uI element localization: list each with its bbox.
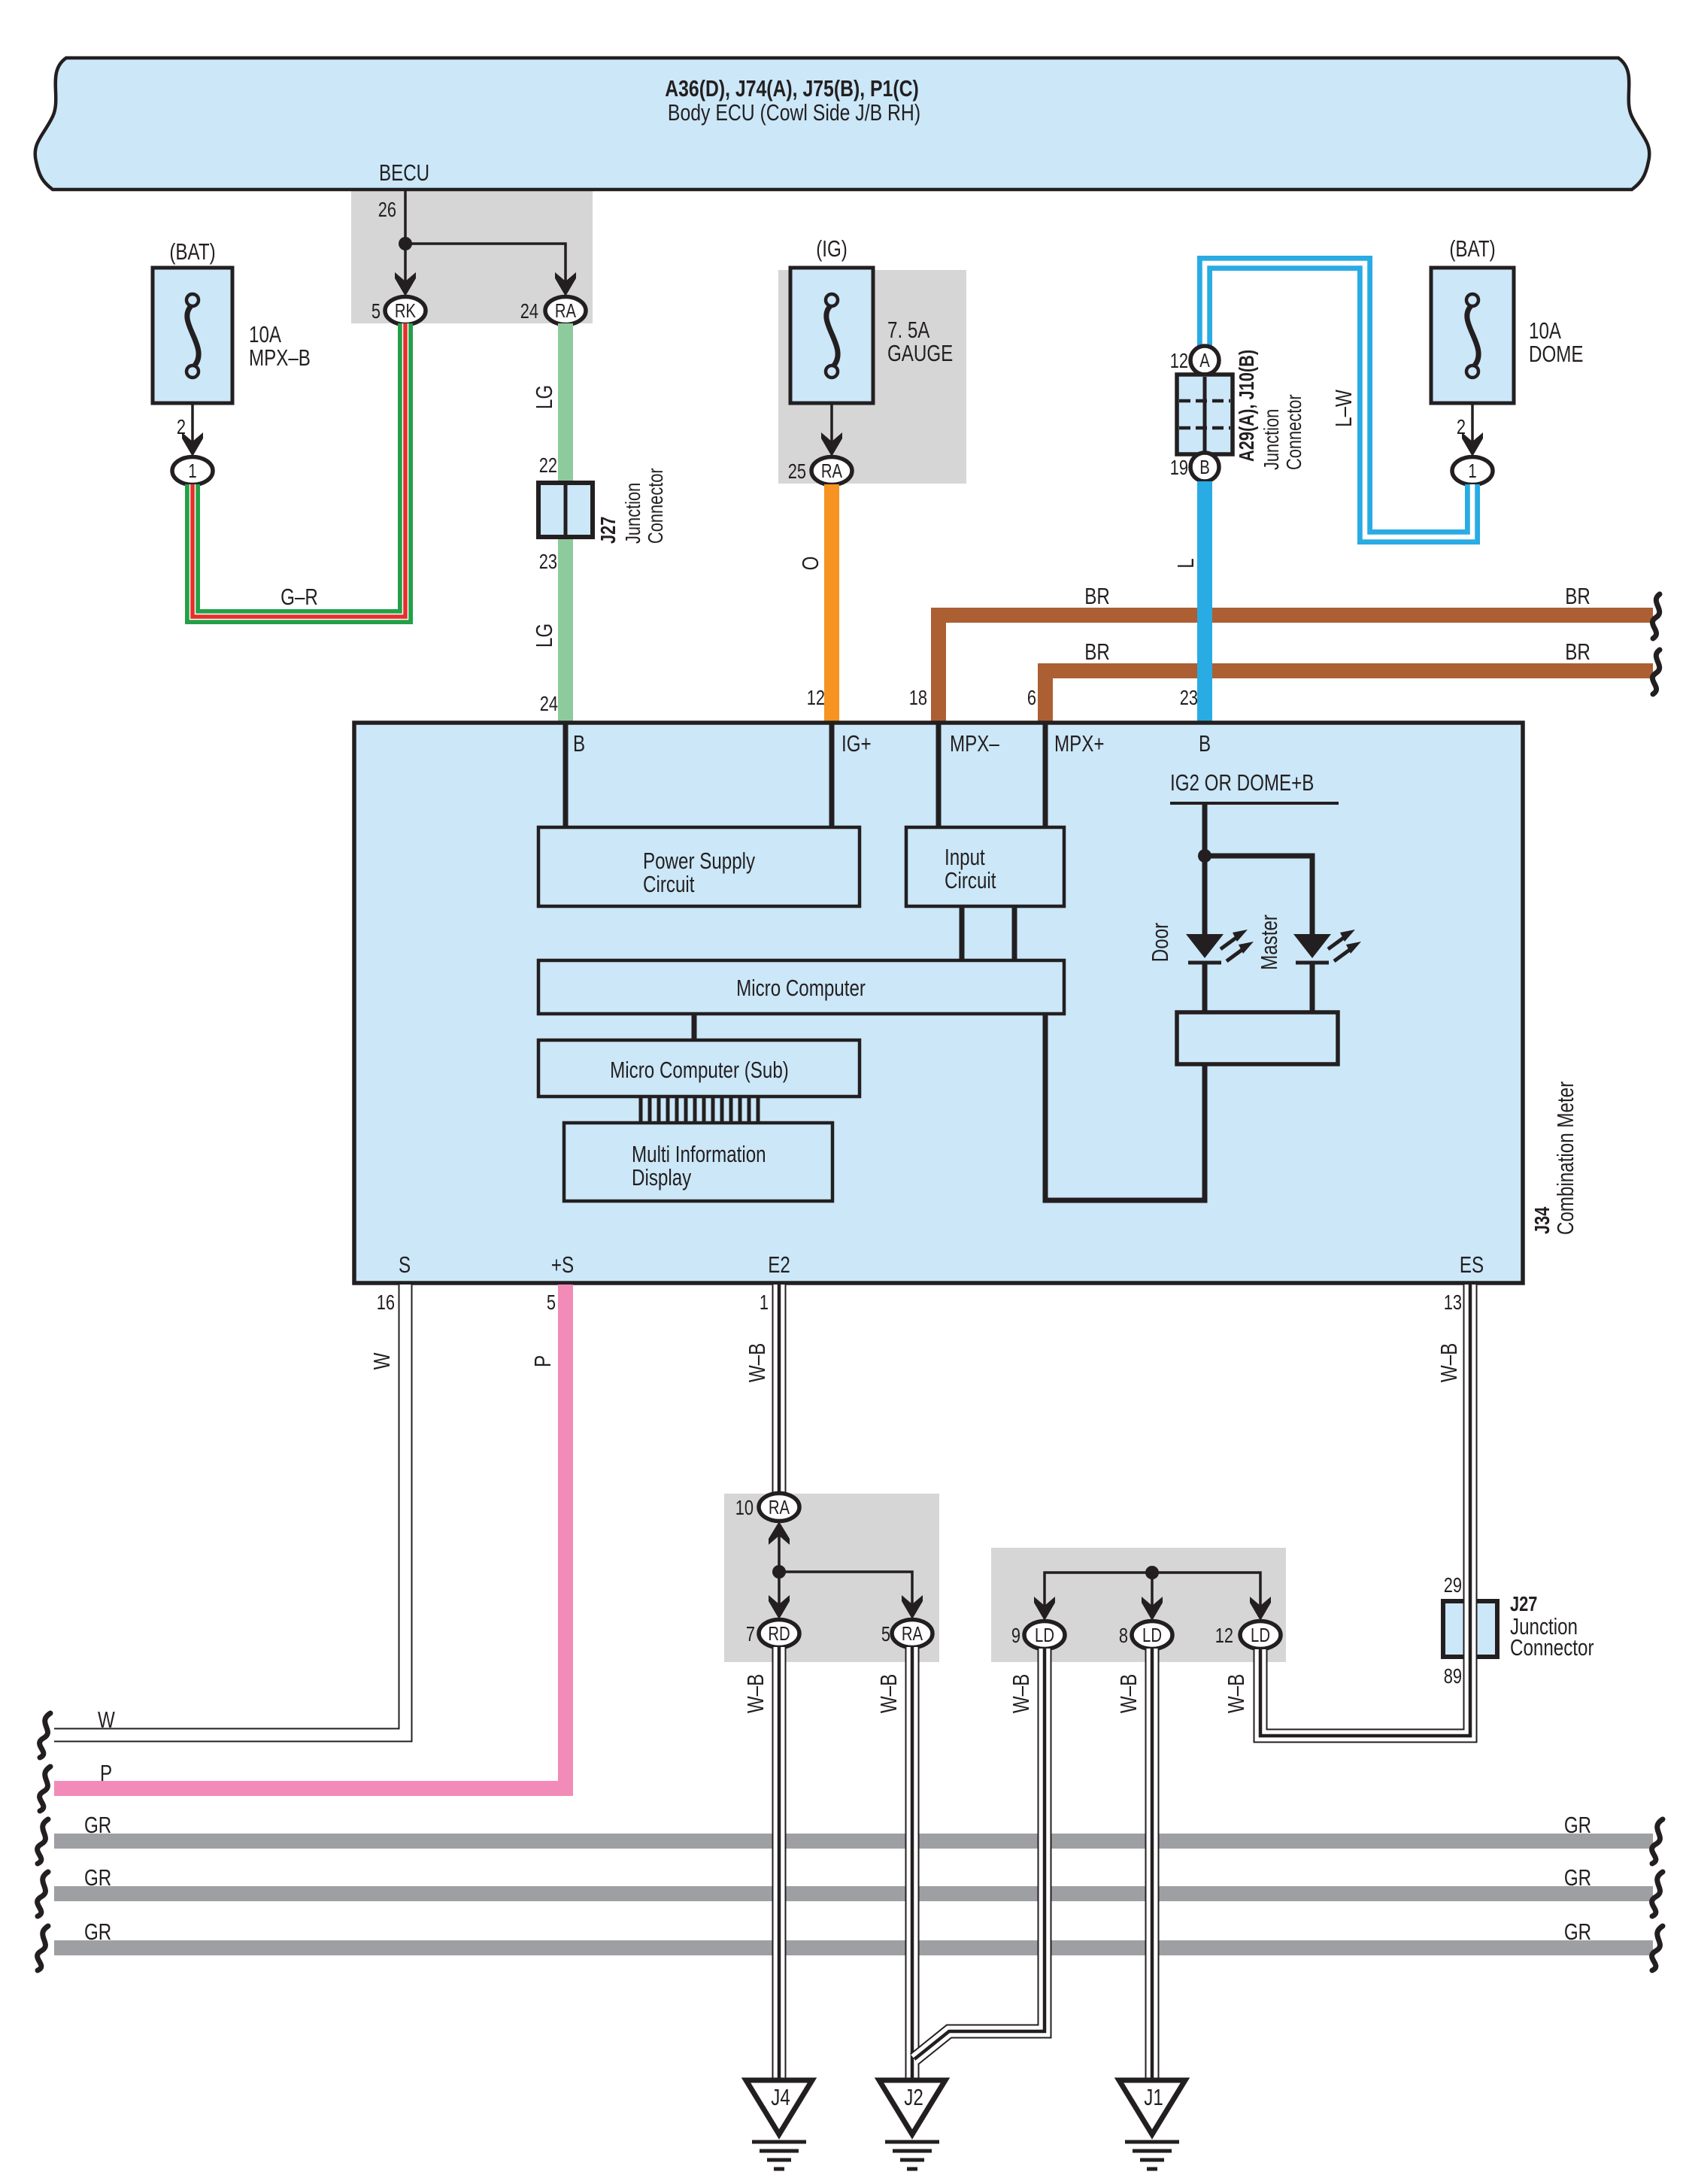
wire W-B from meter pin 13 ES down (1463, 1285, 1478, 1599)
svg-text:Micro Computer: Micro Computer (736, 975, 866, 1001)
svg-text:W: W (368, 1352, 395, 1370)
svg-text:W–B: W–B (1436, 1343, 1462, 1382)
break symbol GR2 right (1652, 1872, 1663, 1916)
LED Door (1186, 934, 1224, 958)
svg-text:Circuit: Circuit (643, 871, 695, 897)
LD group distribution line (1045, 1573, 1260, 1608)
gray background rect behind 9 LD / 8 LD / 12 LD connector group (991, 1548, 1286, 1662)
wire: GAUGE fuse pin 25 down (830, 403, 833, 444)
svg-text:7: 7 (746, 1622, 755, 1646)
pin stub MPX+ to input circuit (1043, 723, 1048, 827)
svg-text:Master: Master (1256, 915, 1282, 970)
banner: Body ECU (Cowl Side J/B RH) connector strip (35, 58, 1650, 190)
svg-text:9: 9 (1011, 1624, 1020, 1647)
wire: junction branch to RA 24 (405, 244, 566, 284)
break symbol BR right 1 (1652, 594, 1660, 639)
svg-text:RA: RA (555, 300, 577, 322)
ground J2 (879, 2080, 945, 2134)
svg-text:24: 24 (520, 299, 538, 323)
svg-text:GR: GR (1564, 1812, 1591, 1838)
gray background rect behind GAUGE fuse (778, 270, 966, 484)
connector circle 1 (DOME) (1452, 457, 1493, 485)
arrow into circle 1 (MPX-B) (182, 432, 203, 457)
svg-text:Door: Door (1147, 923, 1173, 962)
svg-text:B: B (1199, 457, 1210, 478)
svg-text:BR: BR (1565, 583, 1591, 609)
junction dot (E2 ground split) (772, 1565, 786, 1579)
svg-text:12: 12 (807, 686, 825, 709)
junction connector J27 (ES wire) (1443, 1601, 1497, 1657)
svg-text:GR: GR (1564, 1919, 1591, 1945)
connector oval RA pin 25 (811, 457, 852, 485)
wire GR bus 1 (54, 1834, 1653, 1849)
fuse 7.5A GAUGE box (790, 268, 873, 403)
svg-text:W–B: W–B (1115, 1674, 1142, 1713)
svg-text:B: B (573, 730, 585, 757)
svg-text:Power Supply: Power Supply (643, 848, 755, 874)
svg-text:J4: J4 (771, 2084, 790, 2110)
wire GR bus 3 (54, 1940, 1653, 1955)
wire O (orange) from RA 25 to meter pin 12 IG+ (824, 484, 839, 723)
svg-text:6: 6 (1027, 686, 1036, 709)
svg-text:23: 23 (539, 550, 557, 573)
wire LG from RA 24 down to meter pin 24 B (558, 323, 573, 723)
input circuit box (906, 827, 1064, 906)
svg-text:G–R: G–R (280, 584, 318, 610)
connector oval RA pin 5 (892, 1620, 932, 1648)
svg-text:BECU: BECU (379, 159, 429, 186)
micro computer (sub) box (538, 1040, 860, 1097)
svg-text:LG: LG (531, 623, 557, 648)
wire BR (MPX-) from meter pin 18 up and right to break (939, 615, 1653, 723)
wire BR (MPX+) from meter pin 6 up and right to break (1045, 671, 1653, 723)
arrow into RD 7 (769, 1595, 790, 1619)
junction dot (399, 237, 412, 250)
wire: junction down to RK 5 (404, 244, 407, 284)
svg-text:Display: Display (632, 1164, 691, 1191)
svg-text:1: 1 (1468, 460, 1476, 482)
svg-text:LG: LG (531, 385, 557, 409)
LED Master (1293, 934, 1331, 958)
wire L-W from circle 1 (DOME) to junction connector A (1205, 263, 1472, 537)
svg-text:RA: RA (902, 1623, 923, 1645)
svg-text:GR: GR (84, 1919, 111, 1945)
svg-text:10A: 10A (249, 321, 281, 347)
svg-text:5: 5 (881, 1622, 890, 1646)
svg-text:Circuit: Circuit (945, 867, 996, 893)
svg-text:7. 5A: 7. 5A (887, 317, 930, 343)
arrow into LD 8 (1142, 1597, 1163, 1621)
connector oval RD pin 7 (759, 1620, 799, 1648)
wire W-B from RD 7 to ground J4 (772, 1647, 787, 2079)
svg-text:J27: J27 (1510, 1592, 1537, 1615)
pin stub B to power supply circuit (563, 723, 569, 827)
micro computer to sub link (692, 1014, 697, 1040)
svg-text:ES: ES (1460, 1251, 1484, 1278)
svg-text:12: 12 (1215, 1624, 1233, 1647)
arrow up into RA 10 (769, 1521, 790, 1545)
fuse element MPX-B (186, 294, 199, 306)
break symbol W left (40, 1713, 50, 1758)
svg-text:W–B: W–B (875, 1674, 902, 1713)
svg-text:GR: GR (1564, 1864, 1591, 1891)
connector oval LD pin 12 (1240, 1621, 1281, 1649)
ground J4 (746, 2080, 812, 2134)
svg-text:LD: LD (1142, 1624, 1162, 1646)
svg-text:W–B: W–B (742, 1674, 769, 1713)
svg-text:LD: LD (1251, 1624, 1270, 1646)
wire W-B from meter pin 1 E2 down to 10 RA (772, 1285, 787, 1494)
connector oval LD pin 9 (1024, 1621, 1065, 1649)
svg-text:MPX+: MPX+ (1054, 730, 1104, 757)
svg-text:W–B: W–B (744, 1343, 770, 1382)
svg-text:O: O (797, 557, 823, 571)
svg-text:26: 26 (378, 198, 396, 221)
svg-text:1: 1 (188, 460, 196, 482)
input circuit to micro computer links (960, 906, 965, 960)
wire W-B from LD 9 joining ground J2 (914, 1649, 1045, 2059)
wires LEDs to resistor box (1202, 963, 1208, 1012)
connector oval LD pin 8 (1132, 1621, 1172, 1649)
break symbol GR2 left (38, 1872, 48, 1916)
svg-text:Multi Information: Multi Information (632, 1141, 766, 1167)
svg-text:5: 5 (371, 299, 381, 323)
pin stub MPX- to input circuit (936, 723, 942, 827)
svg-text:Micro Computer (Sub): Micro Computer (Sub) (610, 1057, 789, 1083)
svg-text:DOME: DOME (1529, 341, 1583, 367)
svg-text:8: 8 (1119, 1624, 1128, 1647)
svg-text:J1: J1 (1144, 2084, 1163, 2110)
fuse 10A MPX-B box (153, 268, 232, 403)
junction dot LD group (1145, 1566, 1159, 1579)
svg-text:10: 10 (735, 1496, 754, 1519)
wire: DOME fuse pin 2 down (1471, 403, 1474, 444)
svg-text:Connector: Connector (644, 468, 667, 544)
svg-text:12: 12 (1170, 349, 1188, 372)
pin stub IG+ to power supply circuit (829, 723, 835, 827)
svg-text:B: B (1199, 730, 1211, 757)
svg-text:RA: RA (769, 1497, 790, 1518)
svg-text:10A: 10A (1529, 317, 1561, 344)
svg-text:(BAT): (BAT) (1449, 235, 1495, 262)
wire W-B from LD 8 to ground J1 (1145, 1649, 1160, 2079)
svg-text:(IG): (IG) (816, 235, 848, 262)
fuse 10A DOME box (1431, 268, 1514, 403)
multi information display box (564, 1123, 832, 1201)
svg-text:Input: Input (945, 844, 985, 870)
break symbol GR3 left (38, 1926, 48, 1970)
arrow into RA 5 (902, 1595, 923, 1619)
wire from arrow to junction dot (778, 1534, 781, 1572)
gray background rect behind BECU pins 5 RK / 24 RA (351, 190, 593, 323)
connector oval RA pin 10 (759, 1494, 799, 1521)
svg-text:J2: J2 (904, 2084, 923, 2110)
arrow into LD 12 (1250, 1597, 1271, 1621)
svg-text:+S: +S (551, 1251, 574, 1278)
svg-text:GAUGE: GAUGE (887, 340, 953, 366)
fuse element DOME (1466, 294, 1478, 306)
ground J1 (1119, 2080, 1185, 2134)
svg-text:J34: J34 (1530, 1207, 1554, 1234)
svg-text:P: P (529, 1355, 556, 1367)
connector circle 1 (MPX-B) (172, 457, 213, 485)
svg-text:Connector: Connector (1510, 1634, 1594, 1661)
arrow into circle 1 (DOME) (1462, 432, 1483, 457)
gray background rect behind 10 RA / 7 RD / 5 RA connector group (724, 1494, 939, 1662)
svg-text:RA: RA (821, 460, 843, 482)
svg-text:5: 5 (547, 1291, 556, 1314)
junction dot IG2 (1198, 849, 1211, 863)
svg-text:W–B: W–B (1008, 1674, 1034, 1713)
svg-text:MPX–B: MPX–B (249, 344, 311, 371)
arrow into RK 5 (395, 272, 416, 296)
svg-text:IG2 OR DOME+B: IG2 OR DOME+B (1170, 769, 1314, 796)
wire: fuse MPX-B pin 2 down (191, 403, 194, 444)
svg-text:1: 1 (760, 1291, 769, 1314)
wire W from meter pin 16 S to break (54, 1285, 405, 1735)
svg-text:(BAT): (BAT) (169, 238, 215, 265)
svg-text:P: P (100, 1760, 112, 1786)
branch wire to 5 RA (779, 1572, 912, 1606)
resistor box (unlabeled) (1177, 1012, 1338, 1064)
break symbol GR1 left (38, 1819, 48, 1864)
svg-text:MPX–: MPX– (950, 730, 999, 757)
micro computer box (538, 960, 1064, 1014)
svg-text:IG+: IG+ (841, 730, 872, 757)
svg-text:W–B: W–B (1223, 1674, 1249, 1713)
wire L (blue) from B 19 to meter pin 23 (1197, 481, 1212, 723)
connector oval RA pin 24 (545, 297, 586, 325)
junction connector J27 (LG wire) (538, 483, 593, 537)
svg-text:E2: E2 (768, 1251, 790, 1278)
svg-text:Body ECU (Cowl Side J/B RH): Body ECU (Cowl Side J/B RH) (668, 99, 920, 125)
svg-text:GR: GR (84, 1812, 111, 1838)
svg-text:16: 16 (377, 1291, 395, 1314)
svg-text:S: S (399, 1251, 411, 1278)
break symbol P left (40, 1767, 50, 1811)
wire P from meter pin 5 +S to break (54, 1285, 566, 1788)
svg-text:L: L (1172, 558, 1199, 568)
connector oval RK pin 5 (385, 297, 426, 325)
svg-text:89: 89 (1444, 1664, 1462, 1688)
svg-text:13: 13 (1444, 1291, 1462, 1314)
ribbon link between sub and display (641, 1097, 758, 1123)
svg-text:RK: RK (395, 300, 417, 322)
wire GR bus 2 (54, 1886, 1653, 1901)
svg-text:BR: BR (1565, 639, 1591, 665)
svg-text:Junction: Junction (621, 483, 644, 544)
svg-text:GR: GR (84, 1864, 111, 1891)
svg-text:18: 18 (909, 686, 927, 709)
svg-text:25: 25 (788, 460, 806, 483)
svg-text:Junction: Junction (1260, 409, 1283, 470)
svg-text:A36(D), J74(A), J75(B), P1(C): A36(D), J74(A), J75(B), P1(C) (665, 75, 919, 101)
junction connector A29(A), J10(B) (1190, 346, 1219, 375)
break symbol BR right 2 (1652, 650, 1660, 694)
wire G-R from circle 1 to RK 5 (193, 323, 405, 617)
fuse element GAUGE (826, 294, 838, 306)
wire W-B from J27 89 to LD 12 (1260, 1599, 1470, 1736)
svg-text:W: W (98, 1706, 115, 1733)
svg-text:LD: LD (1035, 1624, 1054, 1646)
svg-text:22: 22 (539, 453, 557, 477)
svg-text:24: 24 (540, 692, 558, 715)
svg-text:BR: BR (1084, 639, 1110, 665)
wire from IG2 node down (1202, 803, 1208, 934)
wire from resistor box to micro computer (1045, 1014, 1205, 1200)
svg-text:19: 19 (1170, 456, 1188, 479)
combination meter J34 box (354, 723, 1523, 1283)
svg-text:A29(A), J10(B): A29(A), J10(B) (1235, 350, 1258, 462)
svg-text:J27: J27 (596, 517, 620, 544)
svg-text:L–W: L–W (1330, 389, 1357, 426)
svg-text:A: A (1199, 350, 1210, 372)
svg-text:29: 29 (1444, 1573, 1462, 1597)
break symbol GR3 right (1652, 1926, 1663, 1970)
svg-text:23: 23 (1180, 686, 1198, 709)
arrow into LD 9 (1034, 1597, 1055, 1621)
arrow into RA 24 (555, 272, 576, 296)
arrow into RA 25 (821, 432, 842, 457)
power supply circuit box (538, 827, 860, 906)
wire W-B from RA 5 to ground J2 (905, 1647, 920, 2079)
break symbol GR1 right (1652, 1819, 1663, 1864)
svg-text:BR: BR (1084, 583, 1110, 609)
branch to master LED (1205, 856, 1312, 934)
svg-text:Combination Meter: Combination Meter (1552, 1081, 1578, 1235)
svg-text:Connector: Connector (1282, 394, 1305, 470)
svg-text:RD: RD (768, 1623, 790, 1645)
wire: BECU pin 26 down to junction (404, 190, 407, 244)
